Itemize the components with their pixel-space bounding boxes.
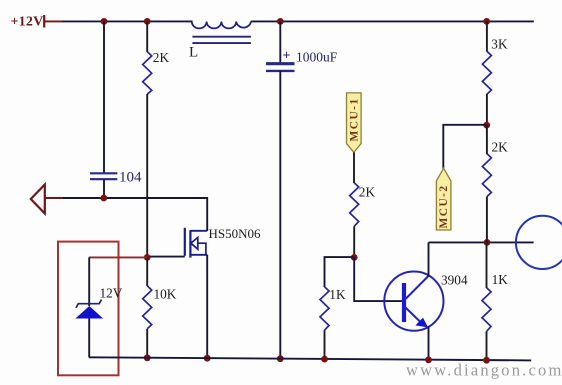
node dot top rail x280 [277, 18, 284, 25]
inductor L core lines [192, 36, 251, 38]
svg-text:+: + [283, 49, 291, 64]
node dot top rail x147 [144, 18, 151, 25]
node dot 1K left ground [321, 356, 328, 363]
svg-text:1000uF: 1000uF [296, 50, 338, 65]
wire emitter down [428, 327, 430, 361]
ground rail [89, 357, 531, 360]
resistor 1K right [482, 242, 491, 360]
wire base node down and to transistor base [354, 257, 402, 301]
wire x104 down to capacitor 104 [103, 21, 105, 172]
flag MCU-2 [436, 168, 451, 230]
svg-text:+12V: +12V [11, 15, 44, 30]
svg-text:2K: 2K [359, 185, 376, 200]
resistor 3K [482, 21, 491, 125]
wire zener branch lower [88, 319, 90, 358]
svg-text:12V: 12V [100, 286, 123, 301]
capacitor 1000uF plates [266, 62, 295, 65]
svg-text:104: 104 [119, 170, 142, 186]
svg-text:2K: 2K [492, 140, 509, 155]
wire base node to 1K left [325, 257, 355, 287]
resistor 2K mid [350, 183, 359, 258]
node dot emitter ground [425, 356, 432, 363]
wire gate [147, 256, 185, 258]
inductor L coil [192, 22, 251, 29]
svg-text:2K: 2K [153, 50, 170, 65]
node dot output x104 [100, 195, 107, 202]
svg-text:www.diangon.com: www.diangon.com [406, 361, 562, 380]
protection box red [58, 242, 119, 376]
connector circle right edge [516, 216, 562, 269]
wire 2K bottom down to gate node (crosses output wire) [146, 94, 148, 257]
svg-text:1K: 1K [329, 287, 346, 302]
capacitor C 104 plates [90, 172, 117, 174]
node dot collector [484, 239, 491, 246]
node dot 1000uF ground [277, 355, 284, 362]
resistor 2K left (top) [143, 21, 152, 94]
mosfet Q1 HS50N06 [185, 228, 207, 258]
node dot top rail x104 [101, 18, 108, 25]
zener diode 12V [75, 300, 103, 319]
node dot gate [144, 254, 151, 261]
transistor Q 3904 [384, 272, 443, 331]
svg-text:MCU-2: MCU-2 [438, 184, 450, 228]
wire 1000uF to ground [279, 71, 281, 359]
wire to MCU-2 flag [443, 125, 486, 169]
flag MCU-1 [347, 93, 362, 152]
node dot 10K ground [144, 354, 151, 361]
svg-text:HS50N06: HS50N06 [209, 226, 262, 241]
node dot base node [351, 254, 358, 261]
svg-text:10K: 10K [154, 287, 177, 302]
svg-text:3K: 3K [491, 36, 508, 51]
node dot top rail x486 [483, 18, 490, 25]
wire top rail right segment [251, 20, 534, 22]
wire MCU-1 to resistor 2K mid [353, 152, 355, 183]
svg-text:3904: 3904 [441, 273, 468, 288]
resistor 10K [143, 257, 152, 358]
wire capacitor 104 to output node [103, 179, 105, 198]
output port arrow [31, 185, 45, 214]
wire top rail left segment [62, 20, 193, 22]
svg-text:L: L [189, 45, 198, 61]
resistor 1K left [320, 287, 329, 360]
power port +12V [11, 15, 64, 30]
resistor 2K right [482, 125, 491, 242]
wire zener node maroon [89, 256, 147, 258]
node dot 1K right ground [483, 357, 490, 364]
capacitor 1000uF top wire [279, 21, 281, 63]
node dot divider [483, 122, 490, 129]
svg-text:MCU-1: MCU-1 [348, 97, 360, 141]
wire collector rail to circle [429, 241, 534, 243]
wire source to ground [206, 255, 208, 359]
wire output node to drain corner [63, 198, 207, 231]
node dot source-ground [204, 355, 211, 362]
wire zener branch upper [88, 257, 90, 306]
wire collector up [428, 242, 430, 276]
wire output stub maroon [45, 197, 64, 199]
svg-text:1K: 1K [492, 272, 509, 287]
